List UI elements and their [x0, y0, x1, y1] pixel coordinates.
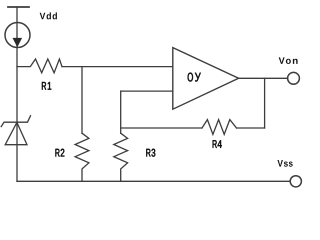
label R3	[146, 149, 155, 157]
label R2	[55, 149, 64, 157]
label Vss	[277, 160, 292, 167]
wire: inverting input down to R3 top	[120, 91, 122, 133]
bottom rail wire to Vss	[17, 180, 290, 182]
wire: vertical from output node down to R4	[264, 78, 266, 128]
resistor R4	[202, 120, 237, 135]
label Vdd	[40, 12, 57, 19]
zener diode D1 cathode bar	[1, 116, 30, 127]
label OY inside op-amp	[188, 73, 201, 82]
resistor R2	[75, 133, 89, 181]
wire: junction down to R2	[81, 67, 83, 134]
current source I1 circle	[5, 23, 30, 48]
op-amp U1 triangle	[173, 48, 239, 110]
resistor R3	[114, 133, 128, 181]
power rail bar Vdd	[8, 6, 29, 8]
wire: op-amp inverting input	[121, 90, 173, 92]
wire: op-amp output to Von terminal	[239, 77, 288, 79]
label Von	[279, 57, 298, 64]
terminal Vss	[290, 176, 301, 187]
label R1	[42, 82, 51, 90]
wire: R1 to op-amp noninverting input	[62, 66, 173, 68]
terminal Von	[288, 72, 300, 84]
wire: feedback node horizontal	[121, 127, 202, 129]
current source I1 arrowhead	[13, 38, 23, 47]
resistor R1	[17, 59, 62, 73]
wire: left vertical rail from Vdd bar down to bottom rail	[16, 7, 18, 181]
wire: R4 right lead to output node	[237, 127, 265, 129]
zener diode D1 anode triangle	[5, 122, 27, 144]
label R4	[213, 140, 222, 148]
